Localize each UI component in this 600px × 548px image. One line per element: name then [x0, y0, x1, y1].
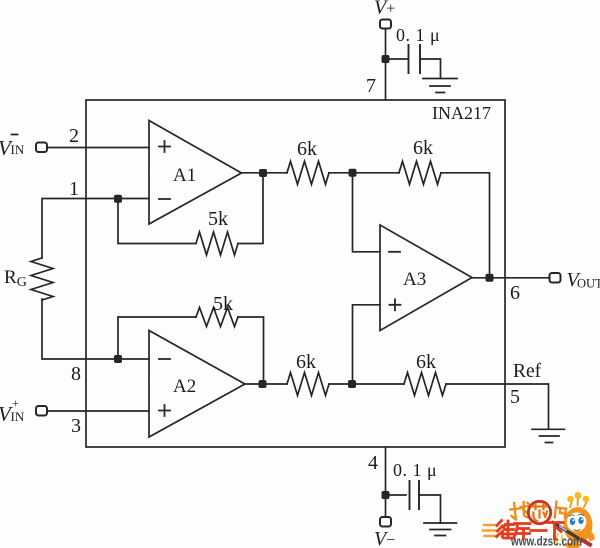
wire junction to cap bottom [386, 494, 407, 496]
watermark logo dzsc [483, 492, 595, 548]
svg-text:5: 5 [510, 386, 520, 408]
terminal Vout [550, 273, 561, 283]
wire A2 output [245, 383, 287, 385]
resistor 6k top-left [287, 161, 329, 184]
mascot [553, 492, 595, 548]
resistor RG [31, 258, 53, 300]
IC boundary box INA217 [86, 100, 505, 447]
op-amp A2 [149, 331, 245, 438]
wire Ref to ground [446, 384, 549, 429]
ground Ref [532, 429, 565, 442]
character pian (orange) [555, 502, 567, 519]
svg-text:6k: 6k [413, 137, 433, 159]
svg-text:0. 1 μ: 0. 1 μ [396, 25, 440, 45]
svg-text:A2: A2 [173, 376, 196, 397]
svg-text:Ref: Ref [513, 361, 542, 382]
svg-text:V−: V− [374, 528, 395, 548]
ground bottom [424, 523, 457, 536]
svg-text:IN: IN [11, 409, 25, 424]
svg-text:www.dzsc.com: www.dzsc.com [510, 534, 582, 548]
resistor 6k bottom-right [404, 373, 446, 396]
svg-text:3: 3 [71, 415, 81, 437]
wire A3 plus to bottom node [353, 305, 381, 384]
svg-text:4: 4 [368, 452, 378, 474]
svg-text:IN: IN [11, 142, 25, 157]
svg-text:OUT: OUT [577, 277, 600, 291]
svg-text:6k: 6k [296, 351, 316, 373]
op-amp A1 [149, 121, 242, 225]
wire A2 feedback left [118, 317, 196, 359]
terminal V- [380, 517, 391, 527]
svg-text:INA217: INA217 [432, 103, 491, 123]
character zhao (orange) [510, 502, 531, 520]
node bottom middle [348, 380, 356, 388]
node V+ cap junction [382, 55, 390, 63]
svg-text:5k: 5k [208, 208, 228, 230]
wire V- pin4 [385, 447, 387, 517]
svg-text:7: 7 [366, 75, 376, 97]
op-amp A3 [380, 225, 472, 331]
capacitor 0.1u bottom [410, 481, 420, 509]
svg-text:6k: 6k [297, 138, 317, 160]
svg-text:5k: 5k [213, 293, 233, 315]
wire node to A3 minus [353, 173, 381, 252]
wire pin3 input [47, 410, 149, 412]
capacitor 0.1u top [409, 45, 421, 73]
magnifier ring with xin [528, 501, 550, 523]
wire junction to cap top [386, 58, 408, 60]
svg-text:A3: A3 [403, 269, 426, 290]
resistor 5k A2 feedback [196, 308, 238, 327]
speed lines [483, 525, 497, 536]
wire V+ pin7 [385, 29, 387, 101]
svg-text:6: 6 [510, 282, 520, 304]
svg-text:+: + [12, 396, 19, 410]
wire A2 feedback right [238, 317, 264, 384]
terminal V+ [380, 20, 391, 29]
node pin8/A2 minus [114, 355, 122, 363]
wire top middle [329, 172, 399, 174]
wire A1 feedback left [118, 199, 196, 244]
resistor 6k top-right [399, 161, 441, 184]
terminal Vin+ [36, 406, 47, 416]
ground top [423, 79, 457, 93]
svg-text:A1: A1 [173, 165, 196, 186]
wire cap to ground bottom [419, 495, 441, 523]
resistor 6k bottom-left [287, 373, 329, 396]
wire A1 output [242, 172, 288, 174]
svg-text:RG: RG [4, 267, 27, 290]
wire A1 feedback right [238, 173, 263, 244]
wire pin1 input [42, 199, 149, 259]
svg-text:V+: V+ [374, 0, 395, 19]
svg-text:6k: 6k [416, 351, 436, 373]
svg-text:2: 2 [69, 125, 79, 147]
node pin1/A1 minus [114, 195, 122, 203]
resistor 5k A1 feedback [196, 232, 238, 255]
node top middle [349, 169, 357, 177]
wire 6k to A3 output node [441, 173, 490, 278]
svg-text:0. 1 μ: 0. 1 μ [393, 460, 437, 480]
node A3 output [486, 274, 494, 282]
text weiku yixia (red) [497, 521, 564, 539]
node A2 output [259, 380, 267, 388]
wire bottom middle [329, 383, 404, 385]
svg-text:8: 8 [71, 363, 81, 385]
svg-text:1: 1 [69, 178, 79, 200]
terminal Vin- [36, 143, 47, 153]
node A1 output [259, 169, 267, 177]
node V- cap junction [382, 491, 390, 499]
wire A3 output to VOUT [472, 277, 550, 279]
wire pin2 input [47, 147, 149, 149]
wire cap to ground top [420, 59, 441, 79]
wire RG to pin8 [42, 299, 149, 359]
